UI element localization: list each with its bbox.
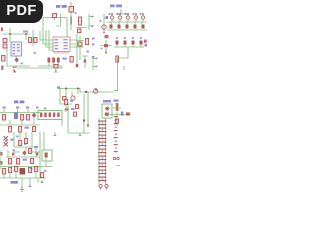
wire stub corner [56,14,61,26]
resistor R6a [86,39,89,45]
pin label bl3 [26,107,29,109]
pin label m3 [92,56,94,58]
ground G5 [41,180,44,183]
label spk2 [24,143,27,145]
wire R42 stub [132,45,134,48]
wire gray tick [123,66,125,70]
resistor Rs2 [36,153,38,156]
ground G4 [29,184,32,187]
wire Q4 stub [135,19,136,24]
node label N2 [57,87,60,89]
junction n2b [77,87,79,89]
wire TR feed [116,9,129,14]
node label TM 400T [110,5,115,8]
resistor R42 [132,41,135,45]
connector J1 [98,118,106,184]
wire BL drops [4,109,34,125]
resistor R25 [35,167,38,172]
wire TR busC [114,46,144,48]
diode D6 [14,68,17,73]
node label W306 [14,101,18,104]
wire Q11 net [104,14,109,32]
wire Q13 net [100,40,112,52]
wire TL mesh [2,28,33,66]
capacitor C11 [14,113,18,120]
resistor R20 [17,159,20,165]
resistor R11 [27,115,30,121]
capacitor Cs2 [1,161,3,165]
diode D1 [53,14,57,18]
capacitor Cs1 [1,152,3,156]
value label q15v [70,100,73,102]
capacitor C13 [3,169,6,175]
capacitor Cs3 [1,28,3,32]
pin P2 [105,184,108,187]
capacitor C21 [76,64,79,67]
junction ctr2 [87,124,89,126]
label n1 [23,31,28,33]
pin label Q2 [117,13,119,15]
wire bus BL2 [0,124,40,126]
PDF badge [0,0,43,23]
value label C4v [63,58,67,60]
pin label m4 [87,51,89,53]
resistor R23 [15,167,18,172]
wire Q1 stub [111,19,112,24]
resistor R24 [29,168,32,173]
resistor R43 [140,41,143,45]
pin J4.1 [96,58,98,60]
wire pin tails [101,188,107,190]
resistor R13 [19,127,22,133]
label spk9 [44,108,46,110]
resistor R18 [29,149,32,154]
ground G6 [54,133,57,136]
capacitor C2 [48,58,51,63]
ground G2 [79,133,82,136]
label spk5 [30,168,33,170]
wire R41 stub [124,45,126,48]
wire bus BL1 [0,112,40,114]
wire Q2 stub [119,19,120,24]
resistor R31 [118,25,121,29]
pin stub Q3 [127,13,128,15]
transformer T1 [4,136,9,147]
resistor R12 [9,127,12,133]
label spk4 [16,136,19,138]
value label blv [25,127,30,129]
connector J4 [93,56,96,70]
resistor R26 [116,103,119,111]
resistor R17 [25,139,28,144]
transistor Q15 [71,96,75,100]
pin label x75 [75,12,77,14]
wire TR busB [107,29,147,31]
wire chain x71 [70,2,72,30]
transistor Q3 [126,16,129,19]
diode D10 [32,113,37,118]
capacitor C9 [116,56,119,62]
relay K1 [42,150,52,161]
pin label R41 [124,37,126,39]
ground G1 [54,69,57,72]
capacitor C20 [78,29,82,33]
capacitor C12 [65,100,68,105]
wire C12 drop [65,105,67,113]
resistor R6b [105,35,109,38]
junction ctr [83,119,85,121]
wire U2 pins left [40,30,53,50]
diode D11 [22,150,26,155]
wire R40 stub [116,45,118,48]
capacitor C14 [41,173,44,178]
junction Q13.e [105,52,107,54]
pin label R43 [140,37,142,39]
wire center mesh [60,89,90,134]
resistor R21 [31,159,34,164]
pin P1 [99,184,102,187]
label t1 [11,139,14,141]
pin label bl2 [16,107,19,109]
pin stub Q5 [142,13,143,15]
resistor R27 [126,112,130,115]
wire R43 stub [140,45,142,48]
resistor R41 [124,41,127,45]
pin label Q4 [133,13,135,15]
capacitor C15 [121,112,124,116]
ground G3 [20,186,24,191]
pin label m2 [92,44,94,46]
diode D4 [3,44,7,48]
wire cap stubs [49,63,58,67]
pin label Q3 [125,13,127,15]
capacitor C3 [52,58,55,63]
switch S1 [102,104,112,118]
pin label m1 [92,38,94,40]
value label brv [11,181,19,184]
pin stub Q1 [111,13,112,15]
pin label bl4 [36,107,39,109]
wire BL3 mesh [0,132,52,178]
value label r18v [34,146,38,148]
resistor R15 [74,112,77,116]
pin J2.2 [92,25,94,27]
capacitor C1 [2,56,6,62]
wire bottom drops [4,172,38,187]
transistor Q1 [110,16,113,19]
junction tl1 [9,33,11,35]
diode D5 [15,57,19,62]
resistor network RN1 [38,111,62,120]
transistor Q14 [93,89,98,94]
junction bus2 [95,89,97,91]
wire U2 pins right [70,33,77,68]
junction n2c [85,91,87,93]
value label Q11 [106,16,109,19]
wire Q5 stub [142,19,143,24]
pin label bl1 [3,107,6,109]
pin label R40 [116,37,118,39]
resistor R10 [21,115,24,121]
resistor R7 [76,105,79,109]
resistor R14 [33,127,36,132]
wire right mesh [108,108,131,126]
resistor R40 [116,41,119,45]
resistor R28 [115,119,118,123]
wire TR busA [107,21,147,23]
resistor R5a [29,38,32,43]
node label W305T [56,5,60,8]
resistor R5b [34,38,37,43]
resistor Rs1 [12,153,14,156]
resistor R22 [9,168,12,173]
junction Q11.e [103,32,105,34]
junction n2a [65,87,67,89]
wire BL extra mesh [0,132,46,170]
label s1v [114,100,119,102]
resistor R32 [126,25,129,29]
bridge rectifier BR1 [20,168,26,175]
pin label R42 [132,37,134,39]
connector J2 [89,14,93,30]
value label c12v [71,108,75,110]
resistor R4e [144,40,147,43]
resistor R16 [19,141,22,146]
wire Y stub [82,56,88,68]
IC U1 [11,42,22,56]
wire TR downlink [114,47,128,91]
pin label Q11.b [100,20,102,22]
resistor Rs3 [84,60,87,63]
wire RN1 down [61,120,63,127]
value label r6v [65,109,69,111]
wire band net [18,66,62,68]
transistor Q12 [78,42,82,46]
junction tl2 [25,33,27,35]
resistor R5 [54,65,58,69]
label spk1 [13,150,16,152]
resistor R34 [142,25,145,29]
diode D3 [3,39,7,43]
capacitor C4 [57,58,60,63]
transistor Q2 [118,16,121,19]
capacitor C6 [1,66,3,71]
wire net1 top box [43,18,67,41]
wire D1 stub [54,18,56,21]
resistor R19 [9,159,12,165]
connector J3 [114,116,118,152]
label spk7 [34,52,36,54]
capacitor C5 [70,57,73,63]
pin J4.2 [96,66,98,68]
transistor Q13 [104,44,108,47]
label spk6 [44,170,47,172]
transistor Q5 [141,16,144,19]
pin stub Q2 [119,13,120,15]
resistor R6 [63,97,67,101]
node label S1n [103,100,111,102]
wire Q3 stub [127,19,128,24]
transistor Q4 [134,16,137,19]
pin label Q5 [140,13,142,15]
diode D2 [69,7,74,13]
pin label Q13.1 [101,48,103,50]
IC U2 [53,37,70,54]
wire Q10 net [76,28,87,34]
transistor Q11 [102,25,106,29]
pin stub Q4 [135,13,136,15]
resistor R30 [110,25,113,29]
wire Q12 net [76,36,84,60]
wire stub tr corner [116,165,120,167]
pin label Q1 [109,13,111,15]
pin label TRc [145,44,148,47]
label spk3 [5,140,7,142]
pin J2.1 [92,16,94,18]
resistor R33 [134,25,137,29]
resistor R2 [70,17,72,25]
wire main bus [58,89,118,93]
capacitor C10 [3,115,6,121]
pin P3 [113,157,115,159]
label spk8 [21,63,23,65]
value label r20v [23,159,28,161]
transistor Q10 [79,17,82,25]
pin P4 [117,157,119,159]
